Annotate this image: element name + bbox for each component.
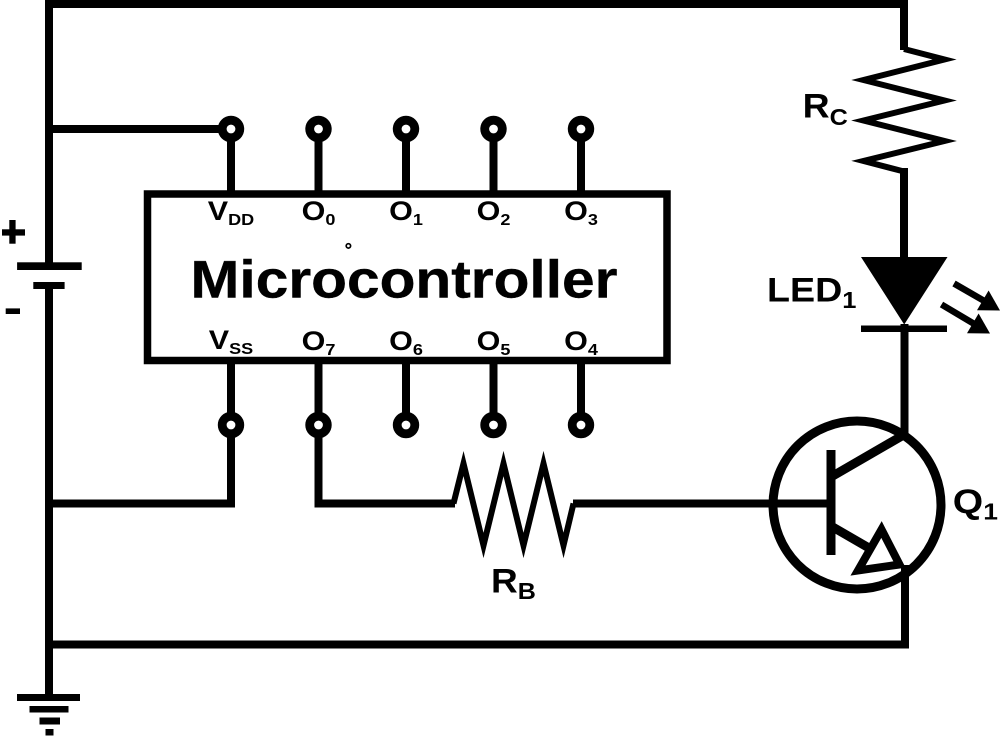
pin O5 terminal [485,416,503,434]
wire: left rail lower [45,288,53,697]
wire: bottom rail + emitter drop [45,565,905,645]
pin O6 label [389,327,423,359]
transistor Q1 emitter stroke [831,526,869,548]
ground [17,694,80,736]
LED1 cathode bar [861,326,947,333]
wire: collector to LED cathode [901,324,909,437]
pin O4 stem [577,360,585,425]
wire: VSS to left rail [45,360,231,504]
pin O7 terminal [310,416,328,434]
pin O7 label [302,327,336,359]
LED1 light arrow 2 shaft [942,305,975,324]
pin O3 stem [577,129,585,194]
pin O1 terminal [397,120,415,138]
battery B1 positive plate [17,262,82,270]
pin O1 stem [402,129,410,194]
pin VSS terminal [222,416,240,434]
battery B1 plus label [2,220,25,244]
wire: left rail upper + top rail + right drop [49,4,904,265]
pin O2 terminal [485,120,503,138]
pin O5 stem [490,360,498,425]
pin VDD stem [227,129,235,194]
pin O0 terminal [310,120,328,138]
battery B1 minus label [6,308,20,314]
pin O4 label [564,327,598,359]
pin O3 terminal [572,120,590,138]
wire: RC to LED anode [900,168,908,258]
pin O1 label [389,197,423,229]
wire: O7 to resistor RB [319,360,456,504]
pin O4 terminal [572,416,590,434]
transistor Q1 emitter arrow [858,530,900,571]
LED1 light arrow 1 shaft [954,284,984,301]
pin VDD label [208,197,254,229]
LED1 anode triangle [861,257,948,325]
microcontroller U1 box [148,194,668,361]
battery B1 negative plate [33,282,64,289]
svg-text:Microcontroller: Microcontroller [191,249,618,309]
label Microcontroller [191,249,618,309]
pin O2 stem [490,129,498,194]
pin O2 label [477,197,511,229]
pin VSS label [209,326,253,358]
pin O6 terminal [397,416,415,434]
transistor Q1 body circle [773,421,941,589]
pin O0 stem [315,129,323,194]
stray degree mark [346,244,350,248]
label RC [803,87,848,131]
resistor RC [864,49,945,172]
wire: VDD supply wire [45,125,224,133]
transistor Q1 collector stroke [831,433,907,477]
pin O6 stem [402,360,410,425]
transistor Q1 base bar [827,450,836,555]
pin O0 label [302,197,336,229]
LED1 light arrow 1 head [977,291,1000,311]
wire: RB to transistor base [573,500,831,508]
LED1 light arrow 2 head [967,314,990,334]
label Q1 [953,482,998,525]
pin O3 label [564,197,598,229]
label LED1 [767,271,856,314]
pin VDD terminal [222,120,240,138]
pin O5 label [477,327,511,359]
resistor RB [454,464,574,546]
label RB [491,562,536,605]
